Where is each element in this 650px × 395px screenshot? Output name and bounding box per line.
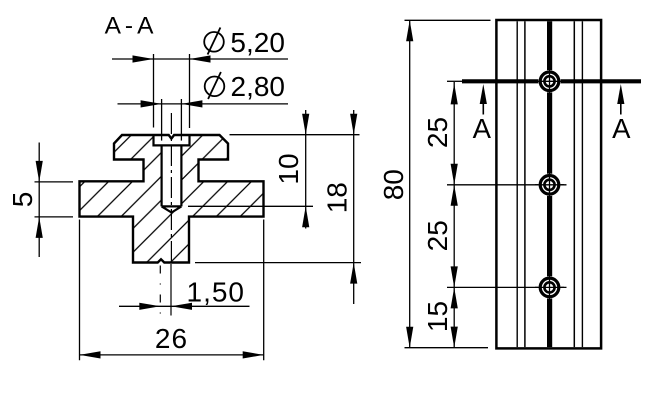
svg-text:15: 15 xyxy=(422,301,453,332)
hole top xyxy=(535,67,564,96)
svg-text:2,80: 2,80 xyxy=(231,71,286,102)
hole bottom xyxy=(535,273,564,302)
dimension diameter 5,20 xyxy=(112,27,288,128)
hatching of cut material xyxy=(75,130,270,270)
svg-text:1,50: 1,50 xyxy=(187,276,246,307)
centre line of hole axis xyxy=(170,113,172,263)
dimension 18 (overall height) xyxy=(195,110,361,304)
svg-text:A: A xyxy=(473,113,492,144)
svg-text:80: 80 xyxy=(378,169,409,200)
profile slot centre thick band xyxy=(547,21,552,347)
svg-text:18: 18 xyxy=(322,182,353,213)
profile body rectangle xyxy=(496,20,601,348)
cutting plane line A-A xyxy=(447,80,462,82)
extension line middle hole xyxy=(447,184,567,186)
svg-text:10: 10 xyxy=(273,153,304,184)
dimension diameter 2,80 xyxy=(118,71,289,141)
dimension 5 (arm thickness) xyxy=(7,143,73,258)
svg-text:A: A xyxy=(612,113,631,144)
svg-text:5: 5 xyxy=(7,192,38,208)
profile edge line left outer xyxy=(516,21,518,347)
svg-text:26: 26 xyxy=(155,323,188,354)
dimension 80 (profile length) xyxy=(378,20,491,347)
dimension 26 (overall width) xyxy=(80,220,264,361)
section arrow left A xyxy=(473,84,492,144)
profile edge line left inner xyxy=(524,21,526,347)
svg-text:25: 25 xyxy=(422,117,453,148)
profile edge line right outer xyxy=(581,21,583,347)
svg-text:A-A: A-A xyxy=(105,13,158,40)
chain dimension line 25/25/15 xyxy=(422,82,458,348)
counterbore d5.2 xyxy=(154,134,190,145)
extension line bottom hole xyxy=(447,286,567,288)
part outline (T-slot nut cross-section) xyxy=(80,135,264,263)
dimension 1,50 (boss offset) xyxy=(119,264,250,316)
hole d2.8 with drill point xyxy=(162,145,182,213)
hole middle xyxy=(535,170,564,199)
section arrow right A xyxy=(612,84,631,144)
svg-text:5,20: 5,20 xyxy=(230,27,285,58)
dimension 10 (hole depth) xyxy=(188,110,360,229)
svg-text:25: 25 xyxy=(422,220,453,251)
profile edge line right inner xyxy=(573,21,575,347)
